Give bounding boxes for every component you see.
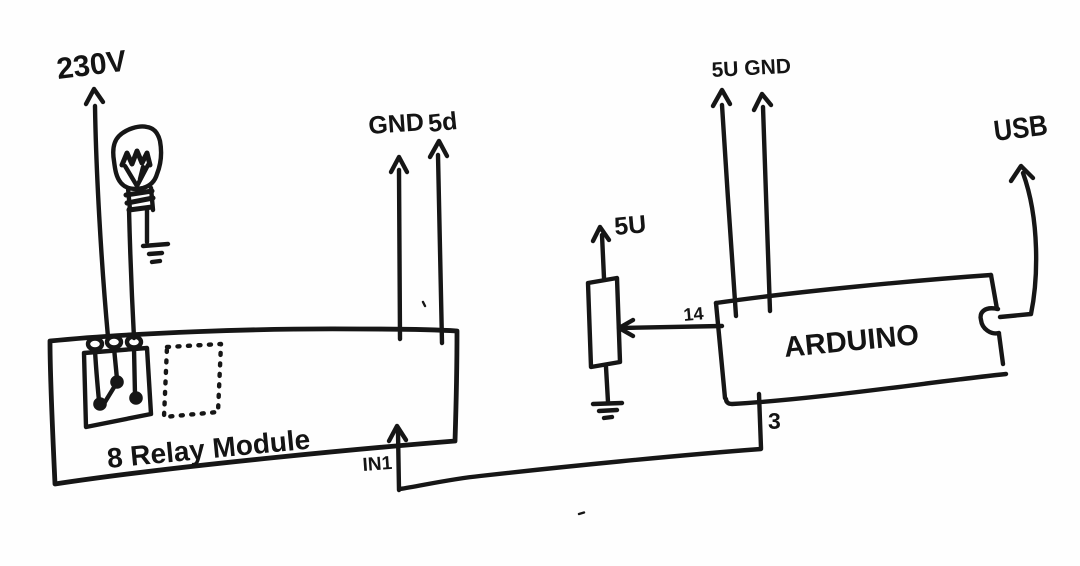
Arduino board U1 (716, 275, 1006, 404)
stray ink mark (423, 302, 584, 514)
svg-text:5U GND: 5U GND (711, 55, 791, 82)
resistor R1 (588, 278, 620, 367)
wire lamp to ground (145, 209, 149, 242)
relay slot (dashed) (164, 344, 221, 417)
relay module board (50, 329, 457, 484)
lamp bulb (113, 126, 161, 188)
svg-text:ARDUINO: ARDUINO (783, 319, 921, 364)
wire IN1 arrow (389, 426, 406, 490)
svg-text:5d: 5d (427, 107, 459, 138)
svg-text:IN1: IN1 (362, 453, 393, 476)
net 230V arrow (86, 89, 108, 337)
svg-text:230V: 230V (55, 45, 129, 86)
label 230V (55, 45, 129, 86)
wire 5V from Arduino (713, 90, 736, 316)
wire pin 3 to IN1 (400, 449, 761, 489)
wire USB (1000, 166, 1036, 317)
wire lamp to relay (129, 209, 134, 338)
svg-text:USB: USB (992, 110, 1049, 148)
net 5V arrow (resistor top) (593, 227, 609, 278)
wire R1 to Arduino pin 14 (619, 320, 722, 336)
ground (lamp) (143, 244, 168, 262)
svg-text:3: 3 (768, 408, 781, 434)
svg-text:5U: 5U (613, 210, 647, 241)
USB connector (981, 308, 999, 333)
wire R1 to ground (606, 367, 608, 402)
wire GND from Arduino (754, 94, 771, 311)
wire Arduino pin 3 (759, 394, 761, 448)
relay K1 (84, 337, 151, 428)
wire 5V from relay (430, 141, 447, 343)
svg-text:GND: GND (367, 108, 424, 140)
ground (resistor) (593, 403, 622, 418)
wire GND from relay (391, 157, 407, 339)
lamp screw base (126, 188, 153, 210)
svg-text:14: 14 (683, 303, 705, 325)
